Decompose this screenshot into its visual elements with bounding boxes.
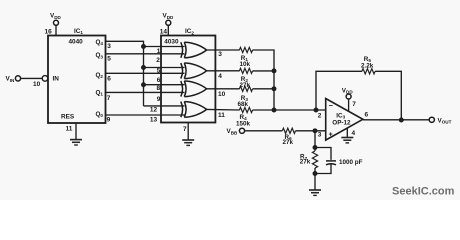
resistor R1 10k — [239, 47, 252, 52]
svg-text:9: 9 — [107, 116, 111, 123]
svg-text:10k: 10k — [240, 61, 251, 68]
svg-text:68k: 68k — [238, 101, 249, 108]
svg-text:IN: IN — [53, 75, 60, 82]
svg-text:3: 3 — [107, 43, 111, 50]
svg-text:+: + — [329, 131, 333, 138]
wire IC2 pin 7 to ground — [187, 123, 189, 141]
ground under IC2 — [182, 140, 194, 145]
wire Q2 pin 6 to XOR2 input pin 6 — [106, 72, 185, 74]
op-amp IC3 OP-12 triangle — [326, 99, 363, 141]
power VDD terminal of IC1 — [54, 20, 59, 25]
svg-text:7: 7 — [183, 126, 187, 133]
XOR gate 2 — [181, 63, 207, 79]
svg-text:12: 12 — [150, 107, 158, 114]
svg-text:IC1: IC1 — [74, 28, 83, 35]
power VDD terminal of IC3 — [346, 94, 351, 99]
resistor R5 2.2k — [362, 69, 375, 74]
svg-text:Q4: Q4 — [96, 39, 104, 46]
wire bus segment R3 to R4 — [273, 89, 275, 110]
wire IC1 pin 11 to ground — [75, 123, 77, 140]
svg-text:Q3: Q3 — [96, 52, 104, 59]
wire bottom node to ground — [314, 174, 316, 191]
wire bus segment pin8 to pin12 — [143, 85, 145, 106]
svg-text:10: 10 — [218, 91, 226, 98]
wire XOR1 pin 3 output to R1 — [207, 49, 240, 51]
resistor R4 150k — [239, 107, 252, 112]
wire XOR4 pin 11 output to R4 — [207, 108, 240, 111]
svg-text:8: 8 — [157, 85, 161, 92]
wire cap branch top — [315, 148, 331, 160]
junction R7-cap bottom — [313, 172, 317, 176]
XOR gate 4 — [181, 102, 207, 118]
svg-text:−: − — [329, 101, 334, 110]
junction bus-pin1 — [142, 45, 146, 49]
ground under R7 — [309, 190, 321, 195]
svg-text:16: 16 — [45, 29, 53, 36]
junction R6-R7 node — [313, 129, 317, 133]
wire bus to XOR2 input pin 5 — [144, 67, 185, 69]
node VBB terminal — [239, 128, 244, 133]
wire R4 to summing bus — [253, 109, 274, 111]
wire R6 to op-amp pin 3 — [296, 130, 326, 132]
ground under IC1 — [70, 140, 82, 145]
svg-text:VDD: VDD — [342, 87, 354, 94]
svg-text:2: 2 — [156, 57, 160, 64]
wire R7 bottom to junction — [314, 168, 316, 174]
wire XOR3 pin 10 output to R3 — [207, 88, 240, 90]
IC1 input bubble at pin 10 — [42, 76, 48, 82]
svg-text:4: 4 — [218, 73, 222, 80]
junction output-feedback — [400, 118, 404, 122]
wire R1 to summing bus — [253, 50, 274, 71]
svg-text:3: 3 — [218, 51, 222, 58]
wire feedback node up — [316, 71, 362, 110]
svg-text:VOUT: VOUT — [438, 117, 452, 124]
node Vin terminal — [15, 76, 20, 81]
wire R3 to summing bus — [253, 88, 274, 90]
capacitor C1 1000 pF top plate — [326, 160, 336, 162]
node Vout terminal — [429, 117, 434, 122]
wire bus segment R2 to R3 — [273, 71, 275, 89]
svg-text:27k: 27k — [283, 139, 294, 146]
svg-text:11: 11 — [66, 126, 73, 133]
wire op-amp pin 6 output to Vout — [363, 119, 429, 121]
svg-text:11: 11 — [218, 112, 225, 119]
wire Q1 pin 7 to XOR3 input pin 9 — [106, 91, 185, 93]
wire cap branch bottom — [315, 165, 331, 174]
wire bus segment pin1 to pin5 — [143, 47, 145, 68]
svg-text:150k: 150k — [236, 120, 251, 127]
junction bus-pin8 — [142, 83, 146, 87]
wire VDD to IC1 pin 16 — [55, 25, 57, 35]
junction R2-bus — [272, 69, 276, 73]
svg-text:27k: 27k — [240, 82, 251, 89]
svg-text:6: 6 — [365, 112, 369, 119]
resistor R2 27k — [239, 68, 252, 73]
XOR gate 1 — [181, 42, 207, 58]
svg-text:OP-12: OP-12 — [332, 119, 351, 126]
IC2 box 4030 quad XOR — [161, 36, 215, 123]
svg-text:6: 6 — [107, 75, 111, 82]
wire bus to XOR4 input pin 12 — [144, 105, 185, 107]
wire summing bus to op-amp pin 2 — [274, 109, 326, 111]
svg-text:4040: 4040 — [69, 38, 84, 45]
power VDD terminal of IC2 — [166, 20, 171, 25]
wire XOR2 pin 4 output to R2 — [207, 70, 240, 72]
wire op-amp pin 4 to ground — [346, 128, 348, 138]
XOR gate 3 — [181, 81, 207, 97]
svg-text:VDD: VDD — [50, 13, 62, 20]
wire VDD to IC2 pin 14 — [167, 25, 169, 35]
svg-text:4030: 4030 — [164, 38, 179, 45]
IC1 box 4040 counter — [48, 36, 106, 124]
svg-text:4: 4 — [352, 130, 356, 137]
wire node down to R7 top — [314, 131, 316, 151]
svg-text:VDD: VDD — [163, 13, 175, 20]
svg-text:RES: RES — [61, 113, 75, 120]
svg-text:2.2k: 2.2k — [361, 62, 374, 69]
wire Q3 pin 5 to XOR1 input pin 2 — [106, 53, 185, 55]
wire bus segment pin5 to pin8 — [143, 68, 145, 85]
svg-text:27k: 27k — [300, 159, 311, 166]
svg-text:13: 13 — [150, 117, 158, 124]
junction R3-bus — [272, 87, 276, 91]
wire bus to XOR3 input pin 8 — [144, 84, 185, 86]
svg-text:14: 14 — [160, 29, 168, 36]
svg-text:SeekIC.com: SeekIC.com — [392, 186, 455, 198]
svg-text:IC2: IC2 — [185, 28, 194, 35]
wire VDD to op-amp pin 7 — [348, 99, 350, 111]
wire Vin to IC1 pin 10 — [21, 77, 42, 79]
svg-text:1000 pF: 1000 pF — [339, 159, 363, 166]
junction bus-pin5 — [142, 66, 146, 70]
wire bus to XOR1 input pin 1 — [144, 46, 185, 48]
junction R4-bus — [272, 108, 276, 112]
resistor R7 27k vertical — [312, 151, 317, 168]
wire Q0 pin 9 to XOR4 input pin 13 — [106, 114, 185, 116]
wire R2 to summing bus — [253, 70, 274, 72]
svg-text:2: 2 — [318, 112, 322, 119]
resistor R6 27k — [282, 128, 295, 133]
svg-text:3: 3 — [318, 131, 322, 138]
svg-text:10: 10 — [33, 81, 41, 88]
svg-text:VIN: VIN — [6, 76, 15, 83]
junction R7-cap top — [313, 146, 317, 150]
svg-text:7: 7 — [352, 101, 356, 108]
svg-text:5: 5 — [107, 56, 111, 63]
svg-text:VBB: VBB — [227, 128, 239, 135]
svg-text:Q1: Q1 — [96, 89, 104, 96]
svg-text:1: 1 — [157, 48, 161, 55]
wire R5 to output node — [375, 71, 401, 120]
svg-text:7: 7 — [107, 95, 111, 102]
svg-text:6: 6 — [157, 77, 161, 84]
svg-text:Q0: Q0 — [96, 111, 104, 118]
svg-text:Q2: Q2 — [96, 72, 104, 79]
junction feedback node — [314, 108, 318, 112]
capacitor C1 bottom plate — [326, 164, 336, 165]
svg-text:9: 9 — [157, 96, 161, 103]
resistor R3 68k — [239, 86, 252, 91]
svg-text:5: 5 — [157, 68, 161, 75]
wire VBB to R6 — [245, 130, 283, 132]
wire Q4 pin 3 to bus — [106, 41, 144, 46]
ground under op-amp — [341, 138, 353, 143]
